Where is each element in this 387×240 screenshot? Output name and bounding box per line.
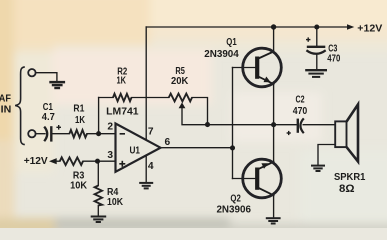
svg-text:AF: AF <box>0 94 11 105</box>
svg-text:LM741: LM741 <box>106 107 139 118</box>
svg-text:6: 6 <box>164 137 170 148</box>
svg-text:IN: IN <box>1 105 12 116</box>
svg-text:8Ω: 8Ω <box>339 183 355 195</box>
svg-text:+12V: +12V <box>24 156 48 167</box>
svg-text:U1: U1 <box>129 145 140 156</box>
svg-text:4: 4 <box>148 161 154 172</box>
svg-text:1K: 1K <box>116 76 126 87</box>
svg-text:1K: 1K <box>75 115 85 126</box>
svg-text:470: 470 <box>327 54 340 65</box>
svg-text:20K: 20K <box>171 76 189 87</box>
svg-text:7: 7 <box>148 127 154 138</box>
svg-text:2N3906: 2N3906 <box>216 205 251 216</box>
svg-text:Q1: Q1 <box>226 37 237 48</box>
svg-text:4.7: 4.7 <box>42 112 55 123</box>
svg-text:SPKR1: SPKR1 <box>334 172 366 183</box>
svg-text:470: 470 <box>293 106 308 117</box>
svg-text:2: 2 <box>107 121 113 132</box>
svg-text:2N3904: 2N3904 <box>204 49 239 60</box>
svg-text:10K: 10K <box>107 197 124 208</box>
svg-text:3: 3 <box>107 150 113 161</box>
svg-text:C2: C2 <box>295 95 304 106</box>
svg-text:10K: 10K <box>70 181 87 192</box>
svg-text:+12V: +12V <box>357 24 382 35</box>
svg-text:R1: R1 <box>73 104 84 115</box>
svg-text:Q2: Q2 <box>230 194 241 205</box>
